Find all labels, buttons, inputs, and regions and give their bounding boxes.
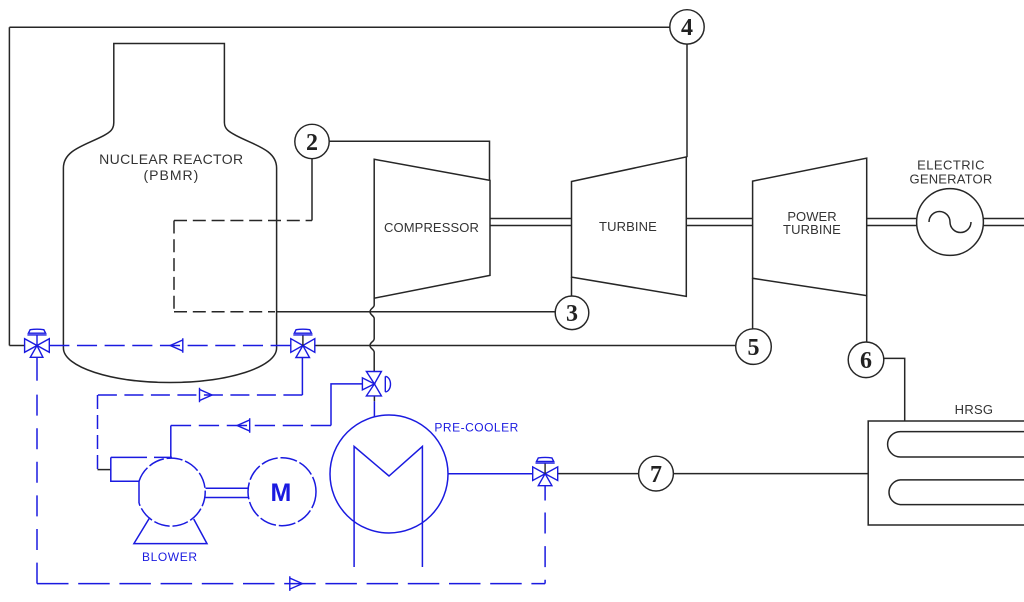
wire blue V2 stem down [301, 358, 303, 396]
svg-text:NUCLEAR REACTOR: NUCLEAR REACTOR [99, 151, 243, 167]
wire power turbine to node 6 [866, 296, 868, 342]
wire top border horizontal to node 4 [9, 26, 669, 28]
svg-text:BLOWER: BLOWER [142, 550, 198, 564]
turbine [572, 157, 687, 297]
wire blue dashed reactor inlet V1 to V2 [49, 345, 290, 347]
flow arrow left at (243,425.5) [237, 418, 250, 433]
svg-text:COMPRESSOR: COMPRESSOR [384, 220, 479, 235]
electric generator [917, 189, 984, 256]
motor M [248, 458, 316, 526]
wire valve V4 to node 7 [558, 473, 639, 475]
shaft power turbine to generator [867, 219, 917, 226]
valve V4 three-way at (545.1,473.7) [533, 457, 558, 485]
svg-text:6: 6 [860, 348, 872, 374]
wire blue V3 to pre-cooler [373, 401, 375, 417]
wire blue dashed V4 stem down [544, 486, 546, 501]
node 5 [736, 329, 772, 365]
valve V1 three-way at (37,345.5) [25, 329, 50, 357]
HRSG box [868, 421, 1024, 525]
node 3 [555, 296, 589, 330]
shaft compressor to turbine [490, 219, 572, 226]
wire valve V2 to node 5 [315, 345, 736, 347]
svg-text:3: 3 [566, 301, 578, 327]
wire blue dashed bottom return line [37, 583, 545, 585]
wire node 2 to compressor inlet [329, 141, 489, 180]
wire turbine outlet to node 3 [571, 277, 573, 296]
svg-text:ELECTRIC: ELECTRIC [917, 158, 985, 173]
wire blue dashed vertical to blower [97, 395, 99, 470]
blower fan [111, 457, 249, 543]
HRSG tube 2 [889, 480, 1024, 505]
svg-text:HRSG: HRSG [955, 402, 994, 417]
svg-text:GENERATOR: GENERATOR [910, 172, 993, 187]
wire stub border to valve V1 [9, 345, 24, 347]
valve V3 three-way at (374.4,383.9) [362, 372, 390, 396]
flow arrow left at (175,345.5) [170, 338, 183, 353]
wire node 4 down to turbine [686, 44, 688, 157]
power turbine [753, 158, 867, 295]
node 7 [639, 456, 674, 491]
wire reactor outlet to node 3 [277, 311, 555, 313]
wire blue dashed to blower top [171, 425, 331, 427]
pre-cooler [330, 415, 448, 567]
reactor core dashed top edge [174, 220, 312, 222]
wire blue pre-cooler to valve V4 [448, 473, 533, 475]
svg-text:7: 7 [650, 462, 662, 488]
svg-text:5: 5 [748, 335, 760, 361]
svg-text:PRE-COOLER: PRE-COOLER [434, 421, 518, 435]
flow arrow right at (296,583.6) [290, 576, 303, 591]
HRSG tube 1 [888, 432, 1024, 457]
svg-text:M: M [270, 479, 291, 507]
node 4 [670, 10, 704, 44]
wire black stub below valve V3 [373, 396, 375, 401]
valve V2 three-way at (302.9,345.5) [291, 329, 315, 357]
wire power turbine to node 5 [752, 278, 754, 329]
wire blue valve V3 left elbow [331, 384, 362, 426]
svg-text:4: 4 [681, 15, 693, 41]
wire black stub blower inlet [98, 469, 111, 471]
shaft turbine to power turbine [686, 219, 752, 226]
svg-text:TURBINE: TURBINE [599, 219, 657, 234]
wire node 2 vertical to core [311, 159, 313, 221]
compressor [374, 159, 490, 298]
wire blue dashed V1 stem down [36, 357, 38, 380]
svg-text:TURBINE: TURBINE [783, 222, 841, 237]
reactor core dashed left edge [173, 221, 175, 312]
wire node 6 to HRSG [883, 358, 904, 421]
wire blue vertical into blower top [170, 426, 172, 458]
wire node 7 to HRSG [673, 473, 868, 475]
flow arrow right at (205,395) [200, 388, 213, 403]
node 6 [848, 342, 884, 378]
shaft generator output [984, 219, 1024, 226]
reactor core dashed bottom edge [174, 311, 275, 313]
wire left border vertical [8, 27, 10, 345]
svg-text:2: 2 [306, 130, 318, 156]
nuclear reactor vessel [63, 44, 276, 383]
node 2 [295, 124, 329, 158]
svg-text:(PBMR): (PBMR) [144, 167, 200, 183]
wire compressor drain vertical with crossover jogs [370, 298, 374, 371]
wire blue dashed V2 to blower inlet [98, 394, 303, 396]
